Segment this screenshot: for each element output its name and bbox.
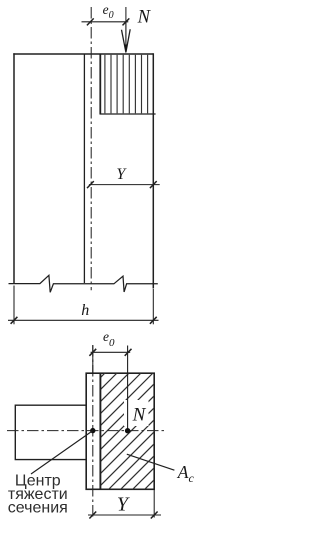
svg-text:N: N — [132, 405, 147, 426]
e0 dimension line (top) — [82, 21, 129, 23]
Y dimension line (top) — [89, 184, 160, 186]
h left tick — [11, 317, 18, 324]
h right tick — [150, 317, 157, 324]
e0 left extension (solid above section) — [92, 345, 94, 374]
Y left tick — [87, 181, 94, 188]
compressed-zone left boundary — [99, 54, 101, 114]
svg-text:h: h — [81, 302, 89, 319]
compressed-zone bottom edge — [100, 113, 156, 115]
N application point — [125, 428, 130, 433]
bottom break edge with two zigzag break symbols — [9, 275, 158, 292]
white halo behind N label — [124, 400, 149, 426]
e0 dimension line (bottom) — [91, 351, 131, 353]
centroid point — [90, 428, 95, 433]
heavy left boundary of Ac zone — [99, 373, 101, 489]
h dimension line — [8, 319, 159, 321]
e0 left tick — [87, 18, 94, 25]
svg-text:N: N — [137, 7, 152, 27]
leader line to centroid text — [31, 431, 93, 474]
h left extension — [13, 286, 15, 325]
diagonal hatch of area Ac — [0, 373, 261, 493]
Y left tick (bottom) — [89, 512, 96, 519]
h right extension — [152, 289, 154, 324]
arrowhead tip fill — [124, 45, 127, 54]
vertical hatch lines of stress zone — [105, 55, 148, 114]
horizontal centroid axis (dash-dot) — [7, 430, 165, 432]
leader line to Ac label — [127, 454, 175, 470]
svg-text:Y: Y — [117, 494, 130, 516]
Y right tick — [150, 181, 157, 188]
Y right extension (bottom) — [153, 490, 155, 518]
centroid axis (dash-dot, vertical) — [90, 7, 92, 290]
Y dimension line (bottom) — [88, 514, 161, 516]
Y right tick (bottom) — [151, 512, 158, 519]
web rectangle outline — [86, 373, 154, 489]
e0 left tick (bottom) — [89, 349, 96, 356]
N force line (vertical) — [127, 346, 129, 431]
svg-text:сечения: сечения — [8, 499, 68, 516]
vertical centroid axis (dash-dot) — [92, 345, 94, 518]
extension line above N — [125, 7, 127, 22]
interior web-face line — [83, 55, 85, 284]
force N arrow shaft — [125, 22, 127, 52]
left edge of column — [13, 53, 15, 283]
force N arrowhead (narrow V) — [122, 29, 131, 52]
e0 right tick (bottom) — [125, 349, 132, 356]
flange outline — [15, 405, 86, 459]
top edge of column — [13, 53, 153, 55]
right edge of column — [152, 53, 154, 288]
e0 right tick — [123, 18, 130, 25]
